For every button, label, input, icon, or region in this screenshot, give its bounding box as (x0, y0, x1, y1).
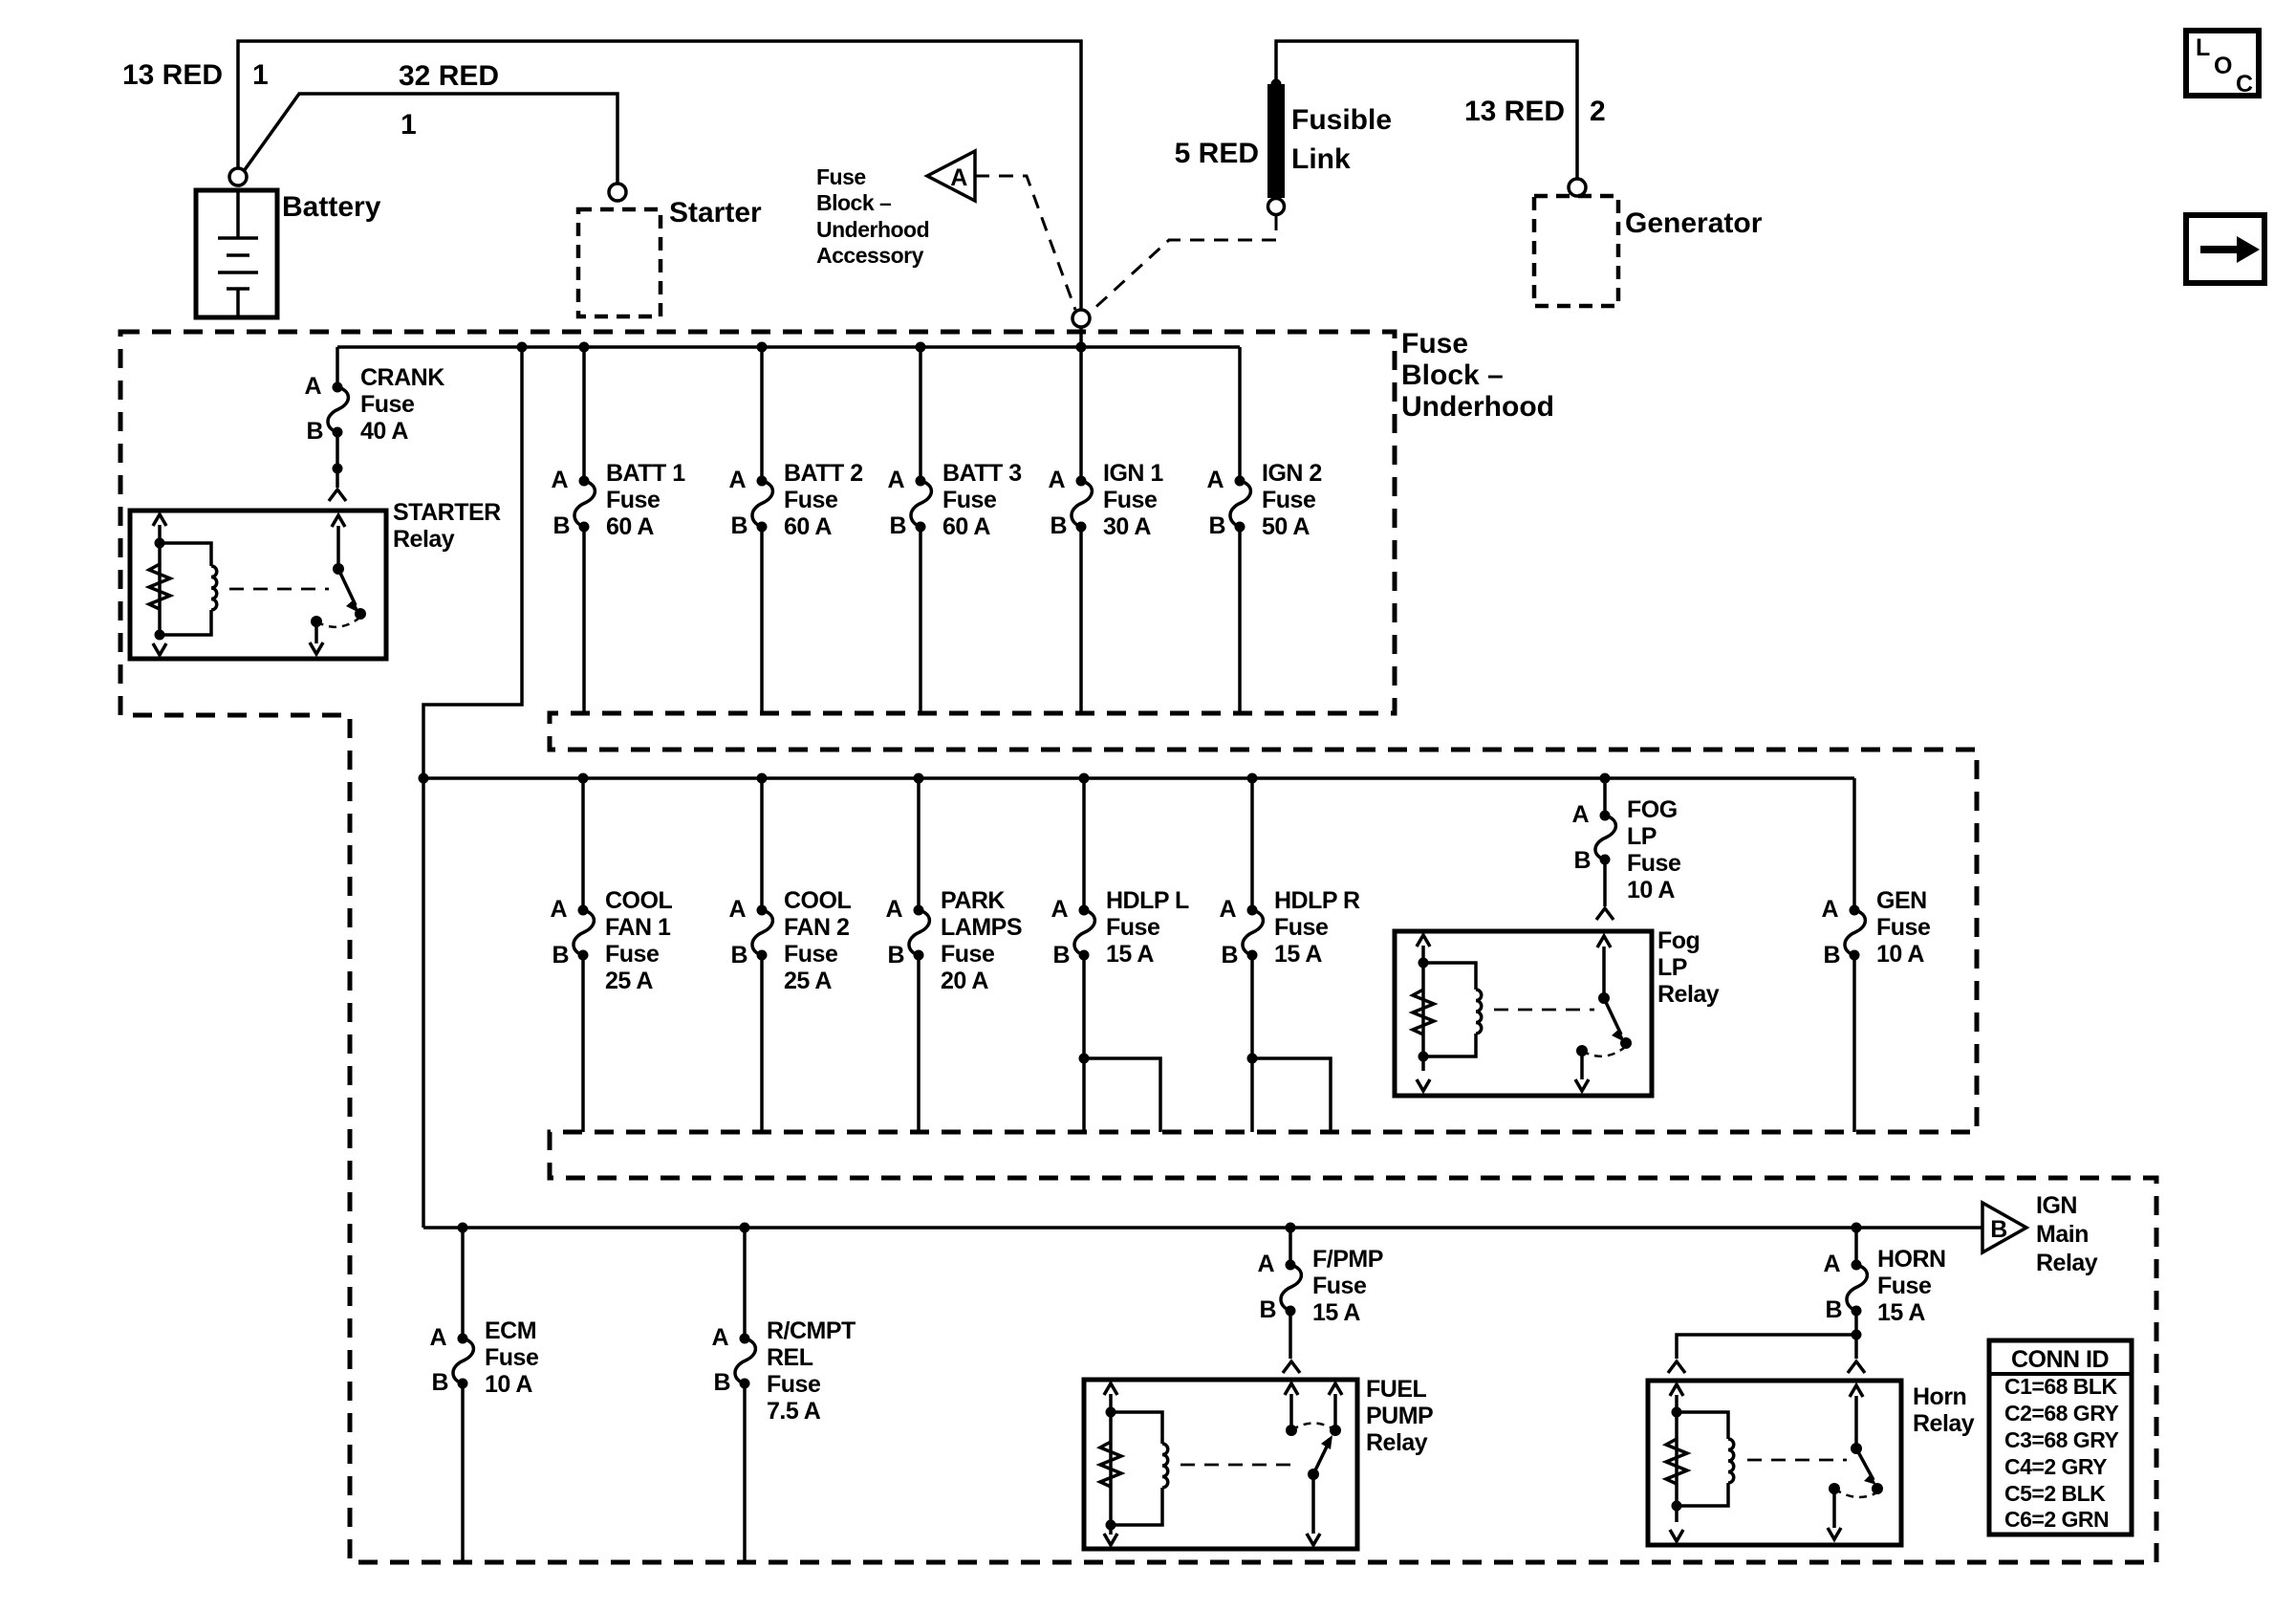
fuse IGN1 30A (1072, 481, 1092, 527)
connector chevron: horn coil (1668, 1361, 1685, 1373)
svg-text:A: A (885, 896, 902, 923)
battery positive terminal (229, 168, 247, 185)
svg-text:CONN ID: CONN ID (2011, 1346, 2109, 1373)
horn relay coil (1677, 1412, 1734, 1506)
svg-text:HDLP R: HDLP R (1274, 887, 1360, 914)
svg-text:Main: Main (2036, 1221, 2089, 1248)
svg-text:7.5 A: 7.5 A (767, 1398, 821, 1425)
svg-text:Fuse: Fuse (941, 941, 995, 968)
svg-text:15 A: 15 A (1877, 1299, 1925, 1326)
svg-text:Accessory: Accessory (816, 243, 924, 268)
fuse PARK LAMPS 20A (909, 910, 929, 955)
fog relay switch common (1597, 936, 1611, 998)
wire: row3 bus (423, 1226, 1982, 1230)
node COOL FAN2 (757, 773, 768, 784)
arrow legend box (2186, 215, 2264, 283)
wire: feed to rows 2 and 3 (423, 347, 522, 1228)
svg-text:B: B (1823, 942, 1840, 969)
fuel pump relay coil bottom node (1106, 1520, 1116, 1531)
svg-text:A: A (551, 467, 568, 493)
svg-text:Fuse: Fuse (1274, 914, 1329, 941)
node: HDLP R branch (1247, 1054, 1258, 1064)
svg-text:Fuse: Fuse (784, 941, 838, 968)
svg-text:Relay: Relay (1366, 1429, 1428, 1456)
svg-text:Block –: Block – (816, 190, 892, 215)
connector chevron: horn switch (1848, 1361, 1865, 1373)
svg-text:Relay: Relay (1657, 981, 1720, 1008)
starter relay NO lead with arrow (310, 621, 323, 654)
svg-text:Generator: Generator (1625, 207, 1763, 239)
svg-text:CRANK: CRANK (360, 364, 444, 391)
connector chevron: CRANK to starter relay (329, 490, 346, 501)
svg-text:C4=2 GRY: C4=2 GRY (2004, 1454, 2107, 1479)
fuse BATT1 60A (574, 481, 595, 527)
svg-text:Fuse: Fuse (767, 1371, 821, 1398)
battery G1 box (196, 190, 277, 317)
svg-text:Underhood: Underhood (1401, 391, 1554, 423)
svg-text:C5=2 BLK: C5=2 BLK (2004, 1481, 2106, 1506)
svg-text:A: A (728, 467, 746, 493)
svg-text:FAN 2: FAN 2 (784, 914, 849, 941)
starter relay coil (160, 543, 217, 635)
fog relay contact dashed arc (1582, 1048, 1624, 1056)
svg-text:Relay: Relay (393, 526, 455, 553)
svg-text:FOG: FOG (1627, 796, 1678, 823)
svg-text:Battery: Battery (282, 191, 381, 223)
horn relay coil top node (1672, 1407, 1682, 1418)
wire: HDLP L fuse leads (1082, 778, 1086, 1132)
relay FOG LP box (1395, 931, 1652, 1096)
svg-text:Fog: Fog (1657, 927, 1700, 954)
fusible link bottom terminal (1268, 199, 1285, 215)
fog relay coil bottom node (1419, 1052, 1429, 1062)
pointer triangle B: IGN Main Relay (1982, 1203, 2026, 1252)
arrow glyph (2200, 236, 2260, 263)
svg-text:HORN: HORN (1877, 1246, 1946, 1273)
svg-text:HDLP L: HDLP L (1106, 887, 1189, 914)
svg-text:15 A: 15 A (1106, 941, 1154, 968)
fuse block underhood dashed outline (120, 332, 2156, 1562)
svg-text:Underhood: Underhood (816, 217, 929, 242)
svg-text:L: L (2196, 34, 2210, 61)
svg-text:Fuse: Fuse (1106, 914, 1160, 941)
fuse F/PMP 15A (1281, 1265, 1301, 1311)
svg-text:BATT 1: BATT 1 (606, 460, 685, 487)
svg-text:25 A: 25 A (605, 968, 653, 994)
svg-text:IGN: IGN (2036, 1192, 2077, 1219)
CONN ID table box (1989, 1340, 2132, 1535)
CONN ID header separator (1989, 1372, 2132, 1376)
starter dashed box (578, 209, 661, 316)
fuel pump relay coil (1111, 1412, 1168, 1525)
svg-text:B: B (730, 942, 747, 969)
svg-text:B: B (730, 512, 747, 539)
svg-text:1: 1 (401, 109, 417, 141)
svg-text:A: A (304, 373, 321, 400)
svg-text:A: A (1051, 896, 1068, 923)
wire 13 RED: battery positive to fuse block feed (238, 41, 1081, 310)
svg-text:GEN: GEN (1876, 887, 1927, 914)
fuse BATT2 60A (752, 481, 772, 527)
node HDLP R (1247, 773, 1258, 784)
svg-text:60 A: 60 A (606, 513, 654, 540)
starter relay NO contact (311, 616, 322, 627)
starter relay coil-to-switch dashed link (229, 588, 329, 591)
fuse COOL FAN1 25A (574, 910, 594, 955)
wire: CRANK fuse leads (336, 347, 339, 488)
svg-text:13 RED: 13 RED (122, 59, 223, 91)
svg-text:C: C (2236, 71, 2253, 98)
fuse R/CMPT REL 7.5A (735, 1339, 755, 1383)
svg-text:Fuse: Fuse (1877, 1273, 1932, 1299)
svg-text:Fuse: Fuse (1627, 850, 1681, 877)
starter relay coil terminal arrows (153, 514, 166, 655)
node FOG LP (1600, 773, 1611, 784)
wire 5 RED / 13 RED 2: fusible link to generator (1276, 41, 1577, 179)
starter relay moving contact arm (338, 569, 356, 605)
svg-text:A: A (950, 164, 967, 191)
svg-text:Fuse: Fuse (606, 487, 661, 513)
svg-text:50 A: 50 A (1262, 513, 1310, 540)
wire: HORN fuse leads (1854, 1228, 1858, 1359)
svg-text:REL: REL (767, 1344, 813, 1371)
svg-text:20 A: 20 A (941, 968, 988, 994)
node on bus (to lower rows) (517, 342, 528, 353)
wire: COOL FAN2 fuse leads (760, 778, 764, 1132)
fuse HORN 15A (1847, 1265, 1867, 1311)
svg-text:B: B (1050, 512, 1067, 539)
fuel pump relay NC terminal from top (1285, 1383, 1298, 1430)
svg-text:A: A (1821, 896, 1838, 923)
svg-text:Fuse: Fuse (1401, 328, 1468, 359)
svg-text:B: B (1208, 512, 1225, 539)
svg-text:STARTER: STARTER (393, 499, 501, 526)
svg-text:FUEL: FUEL (1366, 1376, 1427, 1403)
svg-text:B: B (889, 512, 906, 539)
horn relay contact dashed arc (1834, 1489, 1875, 1497)
node: row2 bus tap (419, 773, 429, 784)
node HORN (1852, 1223, 1862, 1233)
svg-text:Fuse: Fuse (1876, 914, 1931, 941)
svg-text:A: A (1257, 1251, 1274, 1277)
starter relay coil top node (155, 538, 165, 549)
relay HORN box (1648, 1381, 1901, 1545)
svg-text:30 A: 30 A (1103, 513, 1151, 540)
svg-text:10 A: 10 A (1876, 941, 1924, 968)
fog relay coil top node (1419, 958, 1429, 969)
wire: BATT3 fuse leads (919, 347, 922, 713)
svg-text:B: B (306, 418, 323, 445)
wire: IGN1 fuse leads (1079, 347, 1083, 713)
fog relay coil (1423, 963, 1482, 1056)
wire: HDLP R fuse leads (1250, 778, 1254, 1132)
svg-text:PUMP: PUMP (1366, 1403, 1433, 1429)
generator dashed box (1534, 196, 1618, 306)
svg-text:1: 1 (252, 59, 269, 91)
svg-text:LP: LP (1657, 954, 1687, 981)
pointer triangle A: fuse block underhood accessory (927, 151, 975, 201)
svg-text:Link: Link (1291, 143, 1351, 175)
wire: GEN fuse leads (1852, 778, 1856, 1132)
svg-text:32 RED: 32 RED (399, 60, 499, 92)
svg-text:A: A (711, 1324, 728, 1351)
node: splice junction circle above fuse block (1072, 310, 1090, 327)
fuel pump relay contact dashed arc (1291, 1424, 1335, 1431)
svg-text:B: B (1573, 847, 1591, 874)
node ECM (458, 1223, 468, 1233)
svg-text:15 A: 15 A (1312, 1299, 1360, 1326)
fuse HDLP R 15A (1243, 910, 1263, 955)
fuel pump relay NO terminal from top (1329, 1383, 1342, 1430)
fuse GEN 10A (1845, 910, 1865, 955)
LOC legend box (2186, 31, 2259, 96)
wire stub: junction circle to fuse block bus (1079, 327, 1083, 347)
svg-text:R/CMPT: R/CMPT (767, 1317, 856, 1344)
fuse COOL FAN2 25A (752, 910, 772, 955)
starter relay switch common (332, 515, 345, 569)
dashed leader from fusible link to splice (1090, 216, 1276, 313)
relay FUEL PUMP box (1084, 1380, 1357, 1549)
svg-text:Horn: Horn (1913, 1383, 1966, 1410)
svg-text:FAN 1: FAN 1 (605, 914, 671, 941)
svg-text:B: B (1990, 1216, 2007, 1243)
horn relay NO contact (1829, 1483, 1840, 1494)
svg-text:C2=68 GRY: C2=68 GRY (2004, 1401, 2118, 1426)
svg-text:Fuse: Fuse (942, 487, 997, 513)
svg-text:A: A (429, 1324, 446, 1351)
svg-text:F/PMP: F/PMP (1312, 1246, 1383, 1273)
node PARK LAMPS (914, 773, 924, 784)
svg-text:A: A (728, 896, 746, 923)
svg-text:IGN 2: IGN 2 (1262, 460, 1322, 487)
wire: BATT1 fuse leads (582, 347, 586, 713)
svg-text:C6=2 GRN: C6=2 GRN (2004, 1507, 2109, 1532)
battery G1 cell symbol (218, 190, 258, 317)
svg-text:A: A (1048, 467, 1065, 493)
svg-text:Fuse: Fuse (1103, 487, 1158, 513)
wire: PARK LAMPS fuse leads (917, 778, 921, 1132)
svg-text:A: A (550, 896, 567, 923)
node below CRANK fuse (333, 464, 343, 474)
connector chevron: F/PMP to fuel pump relay (1283, 1361, 1300, 1373)
svg-text:C3=68 GRY: C3=68 GRY (2004, 1427, 2118, 1452)
svg-text:A: A (1571, 801, 1589, 828)
svg-text:IGN 1: IGN 1 (1103, 460, 1163, 487)
starter relay coil bottom node (155, 630, 165, 641)
svg-text:BATT 2: BATT 2 (784, 460, 863, 487)
svg-text:COOL: COOL (784, 887, 851, 914)
svg-text:BATT 3: BATT 3 (942, 460, 1022, 487)
wire: BATT2 fuse leads (760, 347, 764, 713)
wire 32 RED: battery to starter (244, 94, 617, 184)
fog relay NO contact (1576, 1045, 1588, 1056)
svg-text:Fusible: Fusible (1291, 104, 1392, 136)
svg-text:B: B (431, 1369, 448, 1396)
fog relay moving contact arm (1604, 998, 1621, 1034)
svg-text:Fuse: Fuse (485, 1344, 539, 1371)
fog relay coil-to-switch dashed link (1494, 1009, 1594, 1012)
svg-text:LP: LP (1627, 823, 1657, 850)
fuel pump relay coil top node (1106, 1407, 1116, 1418)
fuel pump relay coil-to-switch dashed link (1180, 1464, 1298, 1467)
node: fusible link top junction (1271, 79, 1282, 90)
relay STARTER box (130, 511, 386, 659)
wire: HDLP R branch jog (1252, 1058, 1331, 1132)
svg-text:Fuse: Fuse (1262, 487, 1316, 513)
svg-text:Starter: Starter (669, 197, 762, 229)
svg-text:10 A: 10 A (485, 1371, 532, 1398)
svg-text:A: A (887, 467, 904, 493)
svg-text:10 A: 10 A (1627, 877, 1675, 903)
starter relay contact dashed arc (316, 619, 358, 627)
svg-text:40 A: 40 A (360, 418, 408, 445)
svg-text:B: B (1259, 1296, 1276, 1323)
svg-text:C1=68 BLK: C1=68 BLK (2004, 1374, 2117, 1399)
wire: COOL FAN1 fuse leads (581, 778, 585, 1132)
svg-text:Fuse: Fuse (784, 487, 838, 513)
svg-text:B: B (1221, 942, 1238, 969)
svg-text:25 A: 25 A (784, 968, 832, 994)
fuel pump relay moving contact arm (1313, 1443, 1329, 1474)
fuel pump relay resistor (1100, 1442, 1121, 1487)
connector chevron: FOG LP to relay (1596, 908, 1614, 920)
wire: HDLP L branch jog (1084, 1058, 1160, 1132)
svg-text:O: O (2214, 53, 2232, 79)
node HDLP L (1079, 773, 1090, 784)
svg-text:A: A (1823, 1251, 1840, 1277)
svg-text:5 RED: 5 RED (1175, 138, 1259, 169)
svg-text:COOL: COOL (605, 887, 672, 914)
fog relay NO lead with arrow (1575, 1051, 1589, 1091)
svg-text:LAMPS: LAMPS (941, 914, 1022, 941)
svg-text:Fuse: Fuse (605, 941, 660, 968)
horn relay coil bottom node (1672, 1501, 1682, 1512)
fusible link element (1267, 84, 1285, 198)
svg-text:B: B (552, 942, 569, 969)
generator terminal circle (1569, 179, 1586, 196)
dashed leader from pointer A to splice (975, 176, 1075, 310)
node: horn branch (1852, 1330, 1862, 1340)
svg-text:A: A (1206, 467, 1224, 493)
node F/PMP (1286, 1223, 1296, 1233)
node BATT2 (757, 342, 768, 353)
node COOL FAN1 (578, 773, 589, 784)
node R/CMPT (740, 1223, 750, 1233)
fuse FOG LP 10A (1595, 816, 1615, 860)
fog relay coil terminal arrows (1417, 935, 1430, 1091)
svg-text:60 A: 60 A (784, 513, 832, 540)
fuse CRANK 40A (328, 387, 348, 432)
horn relay resistor (1666, 1439, 1687, 1484)
wire: FOG LP fuse leads (1603, 778, 1607, 906)
svg-text:Relay: Relay (1913, 1410, 1975, 1437)
wire: horn branch to relay coil (1677, 1335, 1856, 1359)
fuse HDLP L 15A (1074, 910, 1094, 955)
horn relay moving contact arm (1856, 1448, 1874, 1480)
svg-text:Fuse: Fuse (1312, 1273, 1367, 1299)
node BATT1 (579, 342, 590, 353)
horn relay coil-to-switch dashed link (1747, 1459, 1847, 1462)
wire: IGN2 fuse leads (1238, 347, 1242, 713)
svg-text:13 RED: 13 RED (1464, 96, 1565, 127)
wire: F/PMP fuse leads (1289, 1228, 1292, 1359)
node IGN1 feed (1076, 342, 1087, 353)
fuel pump relay coil terminal arrows (1104, 1383, 1117, 1545)
horn relay NO lead with arrow (1828, 1489, 1841, 1539)
starter terminal circle (609, 184, 626, 201)
node BATT3 (916, 342, 926, 353)
svg-text:Relay: Relay (2036, 1250, 2098, 1276)
svg-text:ECM: ECM (485, 1317, 536, 1344)
svg-text:B: B (1825, 1296, 1842, 1323)
fuse ECM 10A (453, 1339, 473, 1383)
svg-text:PARK: PARK (941, 887, 1005, 914)
node: HDLP L branch (1079, 1054, 1090, 1064)
svg-text:B: B (1052, 942, 1070, 969)
horn relay coil terminal arrows (1670, 1384, 1683, 1541)
fuse IGN2 50A (1230, 481, 1250, 527)
svg-text:60 A: 60 A (942, 513, 990, 540)
svg-text:2: 2 (1590, 96, 1606, 127)
svg-text:Block –: Block – (1401, 359, 1504, 391)
fog relay resistor (1413, 990, 1434, 1034)
svg-text:B: B (552, 512, 570, 539)
fuse BATT3 60A (911, 481, 931, 527)
wire: ECM fuse leads (461, 1228, 465, 1562)
svg-text:A: A (1219, 896, 1236, 923)
svg-text:B: B (887, 942, 904, 969)
horn relay switch common (1850, 1385, 1863, 1448)
svg-text:Fuse: Fuse (360, 391, 415, 418)
wire: R/CMPT REL fuse leads (743, 1228, 747, 1562)
fuel pump relay common lead with arrow (1307, 1474, 1320, 1545)
wire: row1 feed bus (337, 345, 1240, 349)
starter relay resistor (149, 564, 170, 609)
svg-text:B: B (713, 1369, 730, 1396)
svg-text:Fuse: Fuse (816, 164, 866, 189)
svg-text:15 A: 15 A (1274, 941, 1322, 968)
wire: row2 bus (423, 776, 1854, 780)
fuel pump relay common pivot (1308, 1469, 1319, 1480)
